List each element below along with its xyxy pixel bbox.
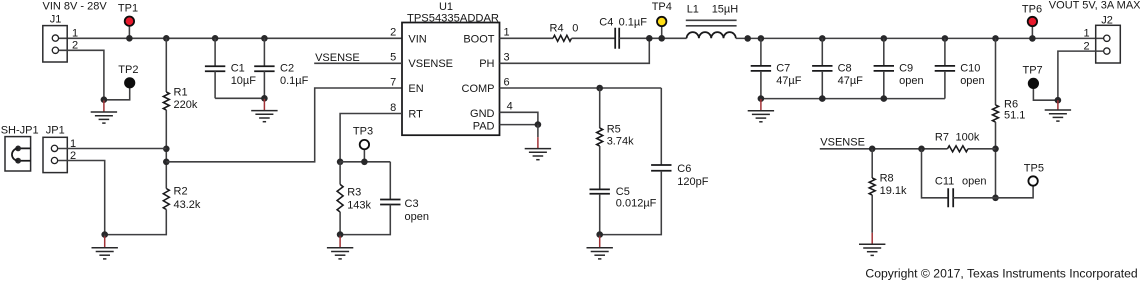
svg-text:3: 3 — [504, 52, 510, 64]
junction C10 top — [942, 35, 949, 42]
testpoint TP3 — [353, 126, 373, 162]
svg-text:C8: C8 — [838, 63, 852, 75]
svg-text:C2: C2 — [280, 63, 294, 75]
svg-text:open: open — [960, 75, 984, 87]
junction R5 top — [596, 85, 603, 92]
svg-text:VSENSE: VSENSE — [315, 52, 360, 64]
svg-text:C4: C4 — [599, 17, 613, 29]
capacitor C5 — [590, 146, 657, 235]
svg-text:1: 1 — [72, 28, 78, 40]
svg-text:PAD: PAD — [473, 120, 495, 132]
svg-text:C9: C9 — [899, 63, 913, 75]
svg-text:GND: GND — [470, 108, 495, 120]
svg-text:TPS54335ADDAR: TPS54335ADDAR — [407, 12, 499, 24]
wire R1 bottom to R2 — [165, 110, 167, 189]
wire VSENSE pin5 stub — [314, 62, 402, 64]
svg-text:TP2: TP2 — [118, 64, 138, 76]
svg-text:7: 7 — [390, 76, 396, 88]
svg-text:R8: R8 — [880, 173, 894, 185]
ground — [859, 195, 885, 255]
capacitor C4 — [599, 17, 647, 49]
junction C11 right node — [992, 195, 999, 202]
junction C8 top — [819, 35, 826, 42]
svg-text:1: 1 — [1084, 28, 1090, 40]
ground — [327, 235, 353, 259]
svg-text:TP1: TP1 — [118, 3, 138, 15]
ground — [92, 235, 118, 259]
junction C2 ground node — [261, 95, 268, 102]
wire R2 bottom — [105, 210, 167, 235]
svg-text:VOUT 5V, 3A MAX: VOUT 5V, 3A MAX — [1049, 0, 1140, 12]
wire R4 to C4 — [572, 37, 616, 39]
wire output cap bottom rail — [761, 98, 945, 100]
wire GND pin4 — [500, 112, 538, 124]
wire R7 to R6 node — [968, 148, 996, 150]
svg-text:4: 4 — [507, 101, 513, 113]
capacitor C8 — [812, 38, 863, 98]
svg-text:120pF: 120pF — [677, 176, 708, 188]
svg-text:C10: C10 — [960, 63, 980, 75]
svg-text:100k: 100k — [956, 132, 980, 144]
junction L1 out — [744, 35, 751, 42]
junction J2 ground node — [1055, 97, 1062, 104]
svg-text:RT: RT — [408, 108, 423, 120]
svg-text:C5: C5 — [616, 186, 630, 198]
resistor R3 — [337, 162, 371, 212]
svg-text:C1: C1 — [231, 63, 245, 75]
wire VSENSE right net — [820, 148, 948, 150]
wire RT net — [340, 114, 402, 162]
capacitor C2 — [254, 38, 308, 98]
wire R3 bottom — [339, 212, 341, 235]
testpoint TP6 — [1022, 3, 1042, 38]
junction R3 ground node — [337, 231, 344, 238]
resistor R1 — [163, 86, 198, 111]
testpoint TP1 — [118, 3, 138, 39]
svg-text:0.012µF: 0.012µF — [616, 198, 657, 210]
svg-text:J1: J1 — [50, 14, 62, 26]
junction R8 top — [869, 146, 876, 153]
junction PH node — [646, 35, 653, 42]
junction EN tap node — [163, 159, 170, 166]
junction JP1 ground node — [101, 231, 108, 238]
wire VOUT rail — [736, 37, 1104, 39]
svg-text:0: 0 — [572, 23, 578, 35]
wire C11 node to TP5 — [996, 186, 1034, 198]
junction TP6 node — [1029, 35, 1036, 42]
resistor R5 — [597, 88, 634, 147]
resistor R7 — [935, 132, 980, 152]
ground — [748, 99, 774, 122]
svg-text:VSENSE: VSENSE — [820, 136, 865, 148]
capacitor C7 — [751, 38, 802, 98]
resistor R2 — [163, 186, 201, 211]
ground — [1045, 100, 1071, 121]
junction C9 top — [881, 35, 888, 42]
svg-text:5: 5 — [390, 52, 396, 64]
wire EN net — [166, 88, 402, 162]
resistor R4 — [550, 23, 579, 42]
svg-text:143k: 143k — [347, 200, 371, 212]
ground — [91, 100, 117, 123]
connector SH-JP1 — [5, 137, 31, 171]
svg-text:R4: R4 — [550, 23, 564, 35]
svg-text:8: 8 — [390, 102, 396, 114]
svg-text:U1: U1 — [439, 1, 453, 13]
junction C1 top — [212, 35, 219, 42]
ground — [587, 235, 613, 259]
svg-text:51.1: 51.1 — [1004, 109, 1025, 121]
junction TP4 node — [658, 35, 665, 42]
svg-text:L1: L1 — [687, 3, 699, 15]
wire C1-C2 bottom — [215, 97, 264, 99]
testpoint TP7 — [1023, 65, 1058, 101]
svg-text:VIN: VIN — [408, 33, 426, 45]
svg-text:R5: R5 — [607, 124, 621, 136]
svg-text:open: open — [962, 175, 986, 187]
wire C4 to L1 — [619, 37, 686, 39]
svg-text:10µF: 10µF — [231, 75, 257, 87]
svg-text:43.2k: 43.2k — [174, 199, 201, 211]
junction R3 top — [337, 159, 344, 166]
svg-text:C6: C6 — [677, 163, 691, 175]
svg-text:15µH: 15µH — [712, 3, 739, 15]
svg-text:C11: C11 — [935, 175, 954, 187]
wire R6 bottom — [995, 122, 997, 198]
capacitor C1 — [205, 38, 256, 98]
wire JP1 pin1 — [58, 148, 167, 150]
junction R1 top — [163, 35, 170, 42]
junction C2 top — [261, 35, 268, 42]
junction TP1-VIN — [126, 35, 133, 42]
svg-text:47µF: 47µF — [776, 75, 802, 87]
svg-text:TP6: TP6 — [1022, 3, 1042, 15]
svg-text:19.1k: 19.1k — [880, 185, 907, 197]
wire BOOT pin1 — [500, 37, 554, 39]
junction C5 ground node — [596, 231, 603, 238]
capacitor C10 — [935, 38, 985, 98]
svg-text:VSENSE: VSENSE — [408, 58, 453, 70]
svg-text:VIN 8V - 28V: VIN 8V - 28V — [43, 0, 108, 12]
junction J1 ground node — [101, 96, 108, 103]
wire COMP pin6 — [500, 87, 662, 89]
testpoint TP2 — [104, 64, 139, 100]
wire J1 pin2 to ground — [59, 50, 104, 99]
svg-text:TP5: TP5 — [1024, 162, 1044, 174]
testpoint TP4 — [652, 1, 672, 38]
connector J1 — [43, 26, 67, 62]
resistor R6 — [993, 38, 1026, 122]
svg-text:3.74k: 3.74k — [607, 135, 634, 147]
svg-text:R1: R1 — [174, 86, 188, 98]
connector JP1 — [43, 137, 67, 172]
wire J2 pin2 to ground — [1058, 51, 1104, 100]
svg-text:6: 6 — [504, 76, 510, 88]
svg-text:BOOT: BOOT — [463, 33, 494, 45]
junction PAD ground node — [535, 121, 542, 128]
inductor L1 — [686, 3, 738, 38]
svg-text:Copyright © 2017, Texas Instru: Copyright © 2017, Texas Instruments Inco… — [865, 267, 1137, 281]
svg-text:1: 1 — [504, 27, 510, 39]
svg-text:TP7: TP7 — [1023, 65, 1043, 77]
svg-text:TP3: TP3 — [353, 126, 373, 138]
junction C8 bottom — [819, 95, 826, 102]
wire RT to C3 — [340, 161, 390, 163]
op-amp U1 TPS54335ADDAR body — [402, 23, 500, 136]
connector J2 — [1096, 25, 1121, 63]
junction R7 right node — [992, 146, 999, 153]
svg-text:0.1µF: 0.1µF — [619, 17, 648, 29]
junction C7 ground node — [758, 95, 765, 102]
junction R6 top — [992, 35, 999, 42]
junction C9 bottom — [881, 95, 888, 102]
svg-text:TP4: TP4 — [652, 1, 672, 13]
wire R1 top — [165, 38, 167, 92]
svg-text:COMP: COMP — [462, 83, 495, 95]
svg-text:J2: J2 — [1101, 14, 1113, 26]
wire PH pin3 — [500, 38, 650, 63]
svg-text:47µF: 47µF — [838, 75, 864, 87]
svg-text:C7: C7 — [776, 63, 790, 75]
svg-text:open: open — [899, 75, 923, 87]
junction JP1 pin1 node — [163, 146, 170, 153]
svg-text:2: 2 — [390, 27, 396, 39]
junction C11 left node — [918, 146, 925, 153]
svg-text:R2: R2 — [174, 186, 188, 198]
svg-text:220k: 220k — [174, 99, 198, 111]
capacitor C6 — [600, 88, 709, 235]
svg-text:PH: PH — [479, 58, 494, 70]
capacitor C3 — [340, 162, 429, 235]
svg-text:SH-JP1: SH-JP1 — [1, 124, 39, 136]
testpoint TP5 — [1024, 162, 1044, 185]
svg-text:EN: EN — [408, 83, 423, 95]
junction C7 top — [758, 35, 765, 42]
wire VIN top rail — [59, 37, 402, 39]
junction TP3 node — [361, 159, 368, 166]
svg-text:R7: R7 — [935, 132, 949, 144]
svg-text:R3: R3 — [347, 187, 361, 199]
svg-text:0.1µF: 0.1µF — [280, 75, 309, 87]
ground — [525, 125, 551, 160]
capacitor C11 — [922, 149, 996, 208]
wire PAD stub — [500, 124, 538, 126]
svg-text:C3: C3 — [405, 198, 419, 210]
svg-text:JP1: JP1 — [46, 124, 65, 136]
capacitor C9 — [874, 38, 924, 98]
resistor R8 — [869, 149, 907, 197]
svg-text:open: open — [405, 211, 429, 223]
wire JP1 pin2 to ground — [58, 161, 105, 235]
ground — [251, 98, 277, 121]
